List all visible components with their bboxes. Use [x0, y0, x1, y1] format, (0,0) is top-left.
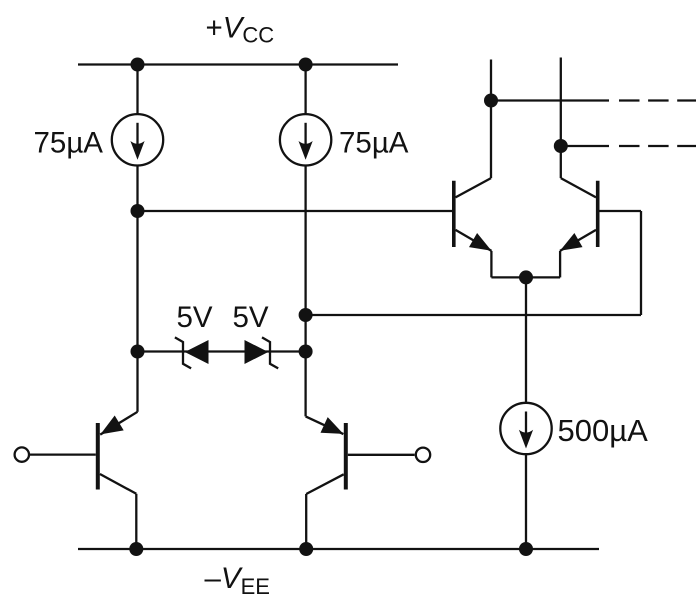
svg-text:5V: 5V	[176, 301, 212, 334]
wire node A to Q1 base	[138, 210, 453, 212]
wire	[304, 315, 306, 352]
transistor Q1	[452, 181, 456, 247]
svg-text:5V: 5V	[232, 301, 268, 334]
wire	[136, 211, 138, 352]
node D (zener right)	[299, 345, 313, 359]
node C (Q2 base return)	[299, 308, 313, 322]
svg-text:75µA: 75µA	[34, 127, 104, 160]
current source I2 75uA	[280, 114, 331, 165]
current source I3 500uA	[500, 403, 551, 454]
wire Q2 base	[599, 210, 641, 212]
wire	[136, 352, 138, 412]
wire	[304, 65, 306, 115]
wire emitter join	[491, 276, 560, 278]
emitter arrow Q1	[469, 233, 492, 251]
wire to node C	[306, 314, 641, 316]
wire Q1 emitter down	[490, 251, 492, 278]
node G (tail)	[519, 270, 533, 284]
svg-text:75µA: 75µA	[339, 127, 409, 160]
wire	[304, 165, 306, 315]
wire Q3 base to input	[30, 453, 96, 455]
node: Q4 / -VEE junction	[299, 542, 313, 556]
node: I3 / -VEE junction	[519, 542, 533, 556]
wire to -VEE	[525, 454, 527, 549]
wire Q3 collector to -VEE	[135, 494, 137, 549]
wire -VEE bottom rail	[78, 548, 599, 550]
zener diode D2 5V	[245, 340, 269, 364]
wire dashed continuation F	[619, 145, 696, 147]
node: VCC / I2 junction	[299, 58, 313, 72]
emitter arrow Q4	[321, 417, 344, 434]
zener diode D1 5V	[185, 340, 209, 364]
node: VCC / I1 junction	[131, 58, 145, 72]
current source I1 75uA	[112, 114, 163, 165]
emitter arrow Q2	[560, 233, 583, 251]
node: Q3 / -VEE junction	[129, 542, 143, 556]
emitter arrow Q3	[100, 416, 123, 435]
wire node E right	[491, 99, 609, 101]
node E (Q1 collector)	[484, 94, 498, 108]
transistor Q2	[596, 181, 600, 247]
wire	[490, 60, 492, 101]
wire zener row	[138, 350, 306, 352]
wire Q1 collector up	[490, 101, 492, 179]
wire tail down	[525, 277, 527, 403]
wire	[136, 165, 138, 211]
node F (Q2 collector)	[554, 139, 568, 153]
node A (I1 out / Q1 base)	[131, 204, 145, 218]
wire Q2 emitter down	[559, 251, 561, 278]
node B (zener left)	[131, 345, 145, 359]
transistor Q4	[344, 423, 348, 490]
wire	[136, 65, 138, 115]
wire dashed continuation E	[619, 99, 696, 101]
wire node F right	[561, 145, 609, 147]
wire Q4 collector to -VEE	[305, 494, 307, 549]
svg-text:500µA: 500µA	[558, 413, 649, 448]
wire Q2 collector up	[560, 146, 562, 178]
wire Q4 base to input	[348, 454, 415, 456]
input terminal left (open circle)	[15, 447, 29, 461]
wire +VCC top rail	[78, 63, 398, 65]
wire	[304, 352, 306, 417]
transistor Q3	[96, 423, 100, 490]
wire down right side	[640, 211, 642, 315]
input terminal right (open circle)	[416, 448, 430, 462]
wire	[560, 58, 562, 147]
